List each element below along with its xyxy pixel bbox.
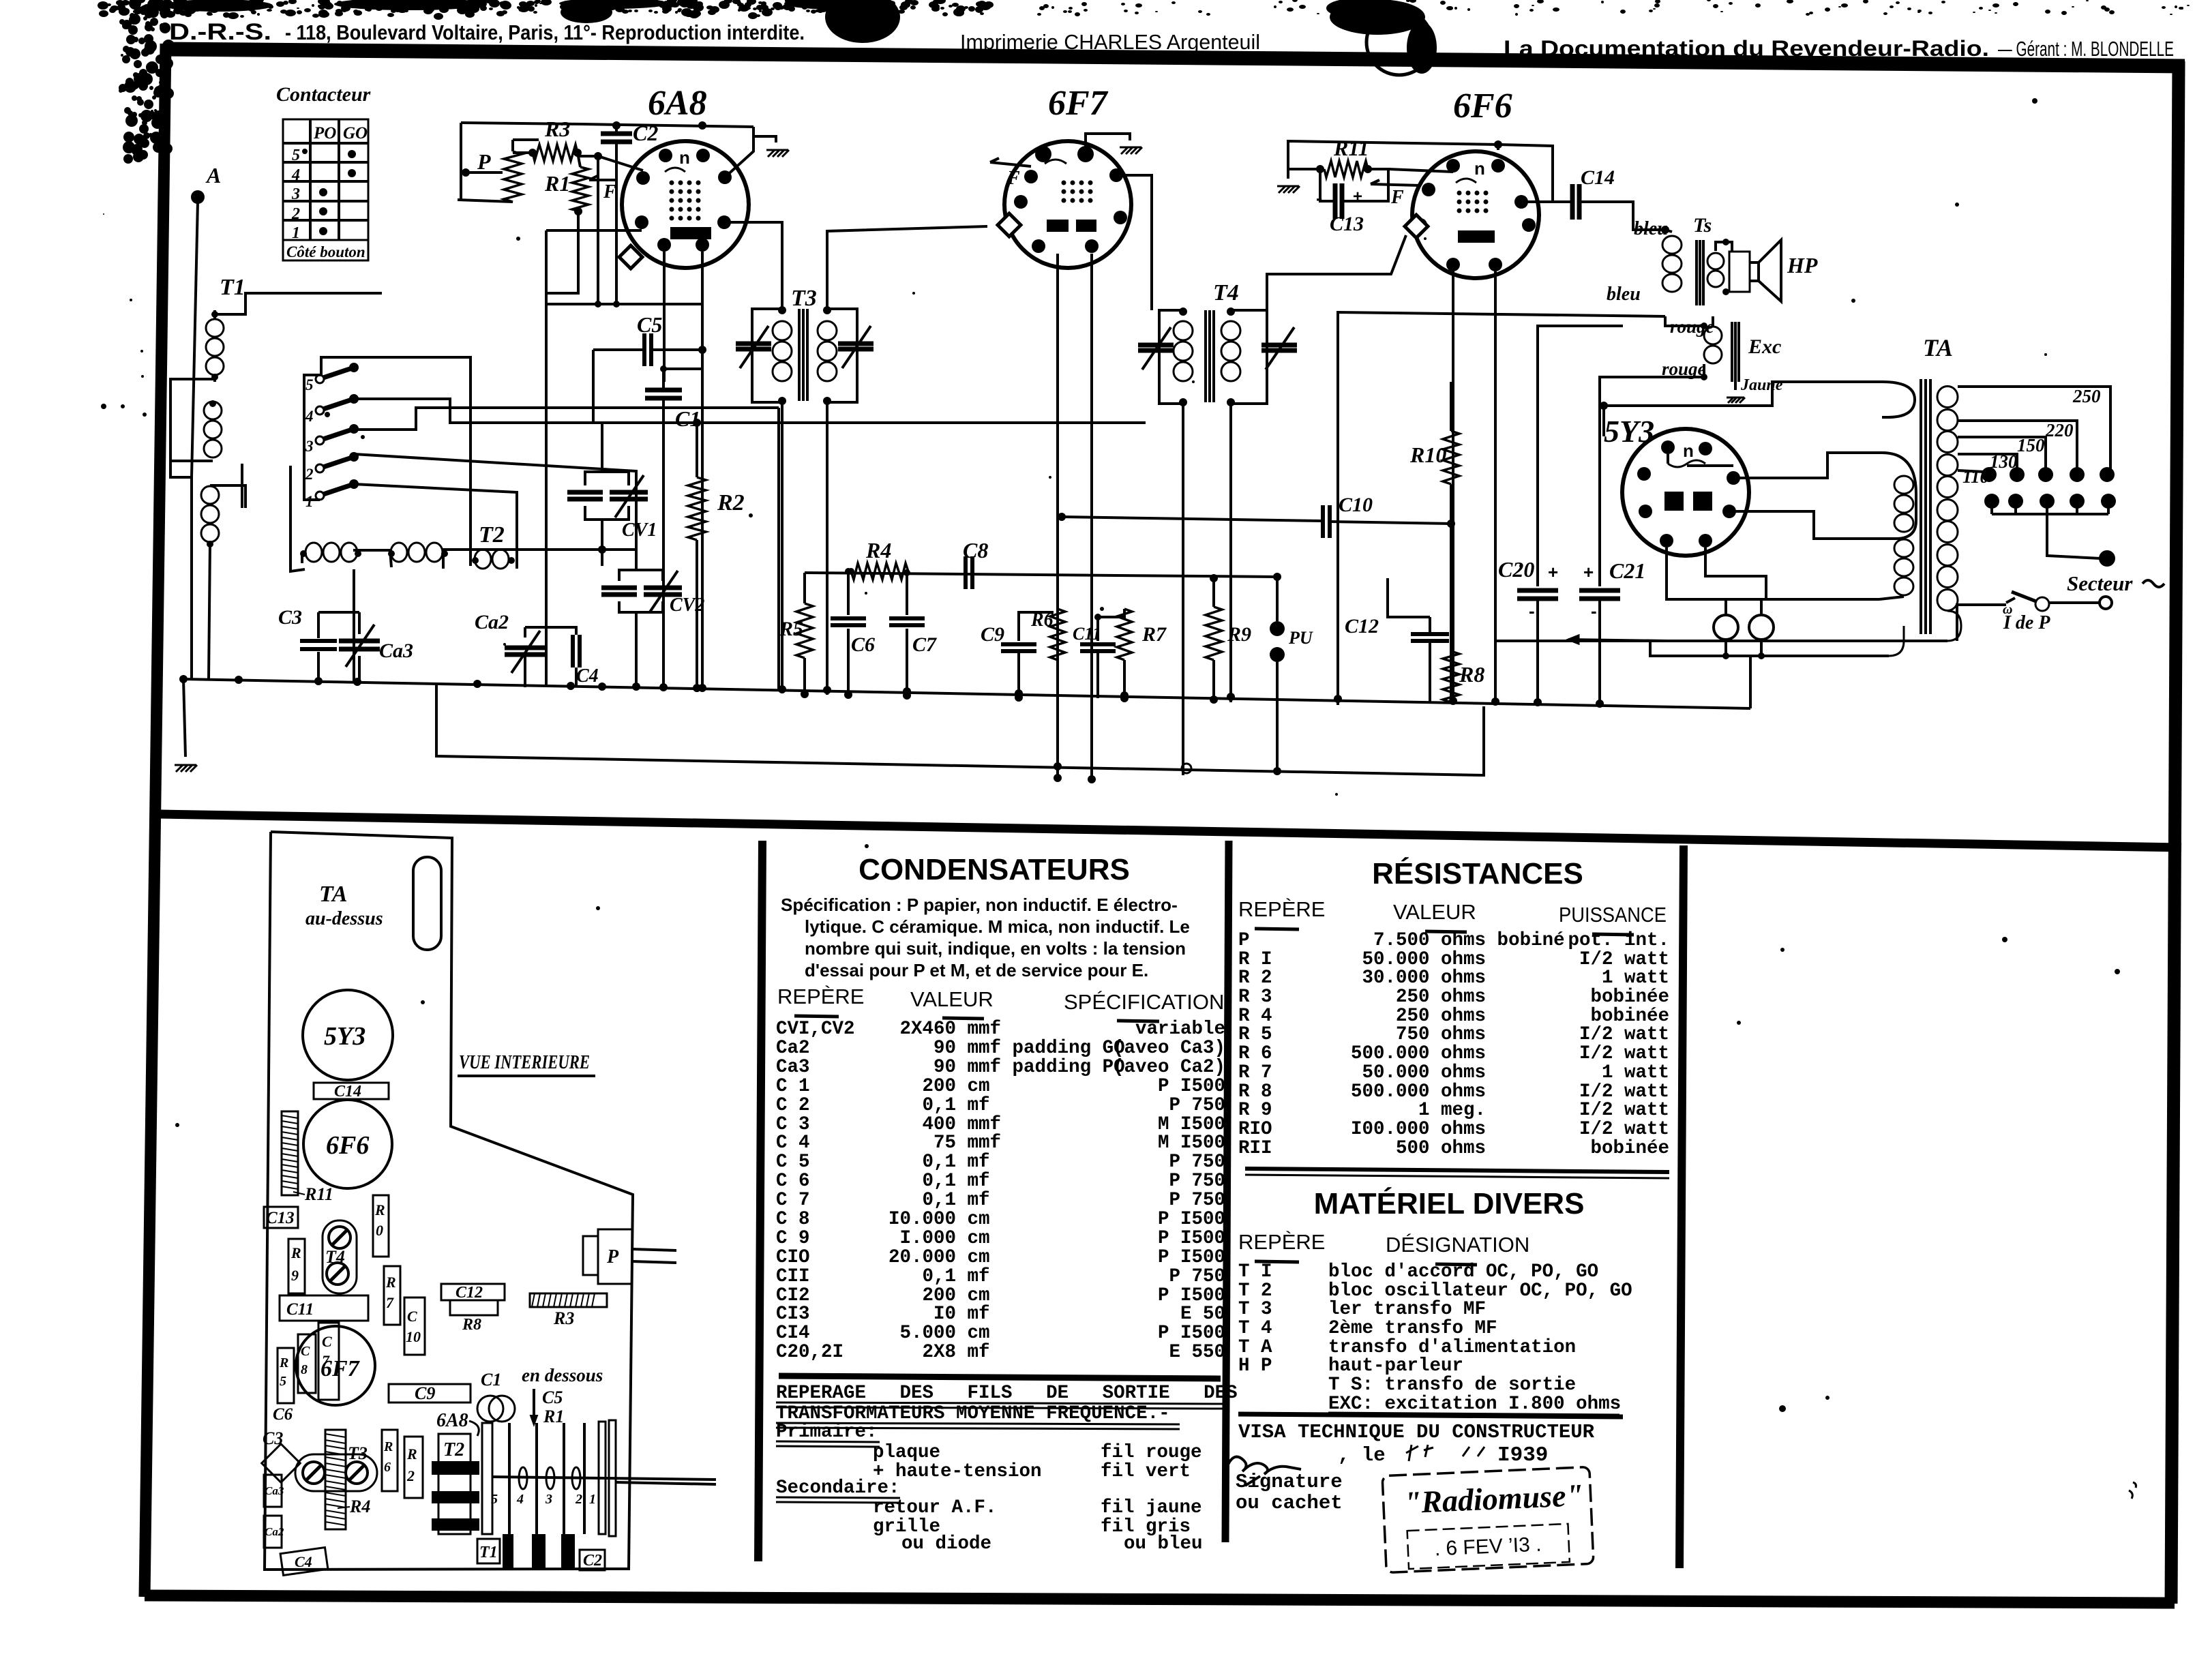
band switch contacts <box>316 375 324 383</box>
wire T4 bottoms down <box>1182 404 1184 775</box>
svg-text:P I500: P I500 <box>1158 1323 1225 1344</box>
svg-text:plaque: plaque <box>873 1442 940 1463</box>
svg-text:PUISSANCE: PUISSANCE <box>1559 903 1667 927</box>
svg-text:R1: R1 <box>543 1407 564 1426</box>
wire main ground bus <box>183 679 1750 708</box>
chassis R10 <box>373 1195 389 1257</box>
thick rule under materiel <box>1238 1414 1623 1417</box>
svg-text:2: 2 <box>291 205 300 223</box>
svg-text:Secondaire:: Secondaire: <box>776 1477 900 1499</box>
capacitor C4 <box>571 635 575 667</box>
svg-text:R10: R10 <box>1409 442 1446 467</box>
wire 6F7 pins down <box>1056 254 1059 778</box>
resistor R2 <box>688 477 706 540</box>
svg-text:Ca3 90 mmf padding P: Ca3 90 mmf padding PO <box>776 1057 1125 1078</box>
thick rule under condensateurs <box>779 1376 1221 1379</box>
svg-text:6: 6 <box>384 1460 391 1475</box>
svg-text:3: 3 <box>291 185 300 203</box>
svg-text:R 5 750 ohms: R 5 750 ohms <box>1238 1024 1486 1045</box>
svg-text:T 4 2ème transfo MF: T 4 2ème transfo MF <box>1238 1318 1497 1339</box>
capacitor Ca3 variable <box>339 639 380 644</box>
wire 6A8 cathode down <box>701 304 704 369</box>
svg-text:C6: C6 <box>851 633 875 656</box>
chassis Ca3 <box>264 1475 282 1507</box>
svg-text:C3: C3 <box>278 606 302 629</box>
svg-text:150: 150 <box>2017 435 2045 455</box>
svg-text:bobinée: bobinée <box>1590 1138 1669 1159</box>
svg-text:R7: R7 <box>1141 623 1167 646</box>
wire 5Y3 bottom heaters <box>1667 547 1879 599</box>
wire R1 bottom <box>546 211 578 304</box>
chassis C8 <box>298 1334 316 1393</box>
svg-text:R 6 500.000 ohms: R 6 500.000 ohms <box>1238 1043 1486 1064</box>
svg-text:4: 4 <box>516 1492 524 1507</box>
trimmer T3 left <box>736 342 771 346</box>
chassis C13 <box>264 1207 298 1228</box>
svg-text:lytique. C céramique. M mica,: lytique. C céramique. M mica, non induct… <box>805 916 1190 937</box>
svg-text:CI3 I0 mf: CI3 I0 mf <box>776 1304 990 1325</box>
chassis T3 oval <box>295 1454 377 1491</box>
svg-text:Secteur: Secteur <box>2067 571 2133 595</box>
svg-text:C 9 I.000 cm: C 9 I.000 cm <box>776 1228 990 1249</box>
svg-text:P I500: P I500 <box>1158 1076 1225 1097</box>
svg-text:2: 2 <box>575 1492 582 1507</box>
svg-text:C2: C2 <box>583 1552 602 1570</box>
svg-text:T I bloc d'accord OC, PO,: T I bloc d'accord OC, PO, GO <box>1238 1261 1598 1282</box>
chassis R11 <box>282 1111 298 1195</box>
svg-text:(aveo Ca2): (aveo Ca2) <box>1113 1057 1225 1078</box>
svg-text:TA: TA <box>319 882 348 907</box>
stray specks <box>302 149 308 154</box>
svg-text:bobinée: bobinée <box>1590 987 1669 1008</box>
svg-text:P 750: P 750 <box>1169 1152 1225 1173</box>
svg-text:R2: R2 <box>717 490 745 515</box>
svg-text:C 6 0,1 mf: C 6 0,1 mf <box>776 1171 990 1192</box>
svg-text:C4: C4 <box>295 1553 312 1570</box>
svg-text:fil rouge: fil rouge <box>1101 1442 1202 1463</box>
svg-text:Spécification : P papier, non: Spécification : P papier, non inductif. … <box>781 895 1178 915</box>
stray specks extra <box>516 237 520 241</box>
svg-text:DÉSIGNATION: DÉSIGNATION <box>1386 1233 1529 1257</box>
chassis R8 <box>450 1300 498 1315</box>
svg-text:R: R <box>374 1201 385 1218</box>
svg-text:1 watt: 1 watt <box>1602 1062 1669 1083</box>
wire 6F7 plate right <box>1120 175 1152 310</box>
svg-text:VALEUR: VALEUR <box>910 987 994 1011</box>
constructor stamp box <box>1382 1467 1594 1572</box>
tube 6F6 spigot <box>1405 215 1428 238</box>
svg-text:H P haut-parleur: H P haut-parleur <box>1238 1355 1463 1377</box>
svg-text:P: P <box>477 149 491 174</box>
separator bar between tables <box>1225 841 1229 1542</box>
svg-text:P I500: P I500 <box>1158 1228 1225 1249</box>
ground top 6A8 <box>768 150 775 157</box>
svg-text:C1: C1 <box>675 406 700 431</box>
svg-text:I/2 watt: I/2 watt <box>1579 1100 1669 1121</box>
wire bus y446 <box>546 303 702 305</box>
variable capacitor CV1 <box>585 472 629 485</box>
svg-text:C5: C5 <box>542 1387 563 1407</box>
chassis R3 <box>530 1293 607 1307</box>
svg-text:8: 8 <box>301 1362 308 1377</box>
svg-text:n: n <box>679 147 690 168</box>
arrow heater left <box>1568 640 1667 641</box>
chassis T1 <box>477 1539 500 1563</box>
svg-text:T4: T4 <box>1213 280 1239 305</box>
svg-text:— Gérant : M. BLONDELLE: — Gérant : M. BLONDELLE <box>1998 37 2174 61</box>
svg-text:CV2: CV2 <box>670 595 704 616</box>
svg-text:CIO 20.000 cm: CIO 20.000 cm <box>776 1247 990 1268</box>
wire switch out arm1 <box>354 484 517 569</box>
wire CV2 <box>635 550 638 570</box>
svg-text:R11: R11 <box>1333 136 1369 160</box>
wire top rail 6A8 <box>582 124 753 127</box>
svg-text:I939: I939 <box>1497 1443 1548 1467</box>
svg-text:6F7: 6F7 <box>1048 84 1109 123</box>
chassis R2 <box>404 1437 423 1498</box>
svg-text:REPÈRE: REPÈRE <box>1238 1230 1325 1254</box>
svg-text:, le: , le <box>1338 1444 1386 1467</box>
svg-text:n: n <box>1474 158 1485 179</box>
chassis C4 <box>280 1548 328 1576</box>
wire Ts to Exc <box>1665 316 1704 326</box>
svg-text:0: 0 <box>376 1222 383 1239</box>
svg-text:5: 5 <box>491 1492 498 1507</box>
svg-text:retour A.F.: retour A.F. <box>873 1497 997 1518</box>
svg-text:nombre qui suit, indique, en v: nombre qui suit, indique, en volts : la … <box>805 938 1186 959</box>
ground 6F7 top <box>1086 134 1130 149</box>
svg-text:C 7 0,1 mf: C 7 0,1 mf <box>776 1190 990 1211</box>
wire PU <box>1270 621 1285 636</box>
divider line between schematic and tables <box>159 814 2181 847</box>
svg-text:C4: C4 <box>576 665 599 687</box>
chassis T4 <box>323 1220 357 1293</box>
svg-text:R1: R1 <box>544 171 570 196</box>
svg-text:PU: PU <box>1288 628 1313 648</box>
svg-text:GO: GO <box>343 124 368 142</box>
ground bottom left <box>183 679 185 757</box>
wire R11 C13 box <box>1300 168 1320 170</box>
svg-text:R3: R3 <box>544 117 570 141</box>
svg-text:E 50: E 50 <box>1180 1304 1225 1325</box>
wire rouge1 to C20 <box>1712 316 1714 326</box>
svg-text:2: 2 <box>406 1467 415 1484</box>
svg-text:Ca3: Ca3 <box>379 640 413 662</box>
frame bottom bar <box>145 1595 2175 1603</box>
wire 5Y3 to TA primary <box>1733 453 1882 478</box>
chassis T2 <box>438 1434 471 1534</box>
svg-text:variable: variable <box>1135 1019 1225 1040</box>
TA core <box>1920 379 1922 634</box>
svg-text:3: 3 <box>305 438 314 455</box>
wire switch to plug <box>2049 601 2099 604</box>
svg-text:4: 4 <box>291 166 300 184</box>
svg-text:TA: TA <box>1923 334 1953 361</box>
chassis R9 <box>288 1239 305 1293</box>
svg-text:SPÉCIFICATION: SPÉCIFICATION <box>1064 990 1224 1014</box>
trimmer T4 left <box>1138 343 1174 348</box>
svg-text:VUE INTERIEURE: VUE INTERIEURE <box>459 1051 590 1073</box>
svg-text:R: R <box>383 1439 393 1454</box>
svg-text:F: F <box>1390 187 1404 208</box>
wire 6A8 bottom pins <box>663 252 666 382</box>
svg-text:C10: C10 <box>1339 494 1373 516</box>
svg-text:C: C <box>407 1308 417 1325</box>
svg-text:5: 5 <box>305 376 314 393</box>
frame left bar <box>145 44 166 1597</box>
svg-text:T4: T4 <box>325 1247 345 1267</box>
svg-text:C1: C1 <box>481 1370 501 1390</box>
svg-text:T1: T1 <box>479 1544 498 1561</box>
svg-text:RÉSISTANCES: RÉSISTANCES <box>1372 856 1583 890</box>
svg-text:P 750: P 750 <box>1169 1095 1225 1116</box>
contacteur table <box>283 119 368 240</box>
svg-text:Exc: Exc <box>1748 335 1781 358</box>
svg-text:1: 1 <box>305 493 314 510</box>
svg-text:R: R <box>406 1445 417 1462</box>
wire 6F7 to C10 node <box>1060 515 1063 518</box>
svg-text:fil jaune: fil jaune <box>1101 1497 1202 1518</box>
frame top bar <box>168 49 2185 66</box>
svg-text:5: 5 <box>292 147 300 164</box>
chassis tube 6F6 <box>303 1100 392 1188</box>
svg-text:C21: C21 <box>1609 558 1645 583</box>
stray mark right margin <box>2129 1482 2136 1499</box>
chassis C2 <box>580 1550 605 1570</box>
svg-text:C20: C20 <box>1498 557 1534 582</box>
svg-text:T3: T3 <box>791 286 817 311</box>
chassis R6 <box>382 1430 398 1491</box>
svg-text:C14: C14 <box>334 1083 361 1100</box>
svg-text:R3: R3 <box>553 1308 574 1328</box>
svg-text:PO: PO <box>313 124 336 142</box>
chassis tube 5Y3 <box>303 990 393 1080</box>
svg-text:I/2 watt: I/2 watt <box>1579 1043 1669 1064</box>
wire switch out arm4 <box>354 399 1146 423</box>
svg-text:CV1: CV1 <box>622 520 657 541</box>
svg-text:2: 2 <box>305 466 314 483</box>
svg-text:C20,2I 2X8 mf: C20,2I 2X8 mf <box>776 1342 990 1363</box>
chassis tuning gang <box>482 1423 492 1534</box>
svg-text:ou cachet: ou cachet <box>1236 1492 1343 1514</box>
svg-text:R 2 30.000 ohms: R 2 30.000 ohms <box>1238 967 1486 989</box>
svg-text:+: + <box>1583 562 1594 582</box>
svg-text:F: F <box>1006 168 1020 189</box>
svg-text:220: 220 <box>2045 420 2074 440</box>
svg-text:R8: R8 <box>462 1316 481 1334</box>
wire CV1 <box>601 423 603 472</box>
scan noise top band <box>98 0 2190 417</box>
svg-text:C9: C9 <box>415 1383 435 1403</box>
svg-text:Ca2: Ca2 <box>265 1525 284 1538</box>
svg-text:R9: R9 <box>1227 623 1251 646</box>
svg-text:C13: C13 <box>266 1209 295 1227</box>
svg-text:I/2 watt: I/2 watt <box>1579 1119 1669 1140</box>
chassis R7 <box>384 1266 400 1325</box>
thick rule under resistances <box>1245 1169 1669 1172</box>
svg-text:C12: C12 <box>1345 615 1379 637</box>
wire 5Y3 top rail <box>1604 382 1882 406</box>
wire T3 down <box>781 402 783 693</box>
selector terminals row2 <box>1984 494 1999 509</box>
wire R11 to 6F6 grid2 <box>1388 169 1453 172</box>
svg-text:RIO I00.000 ohms: RIO I00.000 ohms <box>1238 1119 1486 1140</box>
svg-text:VISA TECHNIQUE DU CONSTRUCTEUR: VISA TECHNIQUE DU CONSTRUCTEUR <box>1238 1421 1595 1443</box>
speaker HP <box>1729 252 1750 292</box>
svg-text:1 watt: 1 watt <box>1602 967 1669 989</box>
TA secondary taps <box>1947 385 1949 387</box>
svg-text:F: F <box>603 181 616 202</box>
svg-text:C 1 200 cm: C 1 200 cm <box>776 1076 990 1097</box>
wire 6F6 top rail <box>1288 141 1498 169</box>
chassis mounting bars <box>503 1534 513 1570</box>
capacitor C1 <box>645 388 682 393</box>
svg-text:C5: C5 <box>637 312 662 337</box>
chassis C14 <box>314 1083 389 1099</box>
svg-text:5Y3: 5Y3 <box>324 1022 365 1051</box>
frame right bar <box>2171 61 2179 1604</box>
svg-text:ou diode: ou diode <box>901 1533 991 1555</box>
svg-text:A: A <box>205 163 221 187</box>
chassis C12 <box>441 1284 505 1300</box>
svg-text:CII 0,1 mf: CII 0,1 mf <box>776 1266 990 1287</box>
wire switch frame <box>304 375 320 500</box>
svg-text:C14: C14 <box>1581 166 1615 189</box>
wire C5 <box>593 348 644 351</box>
field coil Exc <box>1704 327 1722 344</box>
svg-text:-: - <box>1591 601 1597 621</box>
wire 6F6 screen <box>1521 200 1553 203</box>
wire T2 links <box>290 466 305 571</box>
selector common out <box>2047 514 2100 558</box>
TA heater windings <box>1894 476 1913 494</box>
chassis Ca2 <box>264 1516 282 1548</box>
svg-text:R11: R11 <box>304 1184 333 1204</box>
svg-text:P: P <box>606 1246 619 1267</box>
chassis outline vue interieure <box>265 832 633 1570</box>
svg-text:T3: T3 <box>348 1443 368 1463</box>
svg-text:ou bleu: ou bleu <box>1124 1533 1203 1555</box>
svg-text:T1: T1 <box>220 275 245 300</box>
svg-text:I de P: I de P <box>2003 612 2050 633</box>
svg-text:C 5 0,1 mf: C 5 0,1 mf <box>776 1152 990 1173</box>
svg-text:CVI,CV2 2X460 mmf: CVI,CV2 2X460 mmf <box>776 1019 1001 1040</box>
wire R2 <box>696 423 698 477</box>
svg-text:- 118, Boulevard Voltaire, Par: - 118, Boulevard Voltaire, Paris, 11°- R… <box>285 20 805 44</box>
wire Exc bottom <box>1600 364 1704 586</box>
svg-text:Jaune: Jaune <box>1740 376 1783 394</box>
wire P wiper <box>461 171 503 174</box>
svg-text:T2: T2 <box>443 1439 464 1460</box>
svg-text:Signature: Signature <box>1236 1471 1343 1493</box>
svg-text:C11: C11 <box>286 1300 314 1319</box>
svg-text:n: n <box>1683 440 1694 461</box>
svg-text:3: 3 <box>545 1492 552 1507</box>
svg-text:Côté bouton: Côté bouton <box>286 243 365 260</box>
svg-text:C7: C7 <box>912 633 937 656</box>
wire switch out arm3 <box>354 408 779 430</box>
svg-text:+: + <box>1353 187 1362 206</box>
svg-text:P I500: P I500 <box>1158 1247 1225 1268</box>
chassis C9 <box>389 1384 471 1402</box>
wire antenna down <box>192 202 198 477</box>
svg-text:R4: R4 <box>865 538 891 562</box>
chassis C11 <box>280 1295 368 1321</box>
wire switch to TA bottom <box>1957 605 2006 641</box>
svg-text:250: 250 <box>2072 386 2101 406</box>
svg-text:1: 1 <box>292 224 300 242</box>
wire T1 top to switch <box>215 293 382 314</box>
svg-text:T2: T2 <box>479 522 505 547</box>
chassis C10 <box>404 1297 425 1355</box>
chassis potentiometer P <box>598 1229 632 1284</box>
svg-text:Ca2 90 mmf padding G: Ca2 90 mmf padding GO <box>776 1038 1125 1059</box>
svg-text:(aveo Ca3): (aveo Ca3) <box>1113 1038 1225 1059</box>
svg-text:Ca2: Ca2 <box>475 611 509 633</box>
svg-text:R4: R4 <box>349 1497 370 1516</box>
svg-text:R 3 250 ohms: R 3 250 ohms <box>1238 987 1486 1008</box>
svg-text:VALEUR: VALEUR <box>1393 900 1476 924</box>
svg-text:R 9 1 meg.: R 9 1 meg. <box>1238 1100 1486 1121</box>
chassis R5 <box>278 1348 294 1403</box>
svg-text:C 2 0,1 mf: C 2 0,1 mf <box>776 1095 990 1116</box>
wire Ts secondary return <box>1338 312 1665 705</box>
selector terminals row1 <box>1982 467 1997 482</box>
svg-text:5: 5 <box>280 1374 286 1389</box>
ground R11 <box>1288 168 1320 170</box>
chassis tube 6F7 <box>296 1326 375 1405</box>
svg-text:pot. int.: pot. int. <box>1568 930 1669 951</box>
svg-text:bleu: bleu <box>1607 284 1641 305</box>
svg-text:-: - <box>1529 601 1535 621</box>
wire T3 to 6F7 grid <box>827 226 987 309</box>
wire to ground top <box>753 127 776 142</box>
svg-text:C12: C12 <box>456 1284 483 1302</box>
svg-text:P 750: P 750 <box>1169 1171 1225 1192</box>
separator bar left of condensateurs <box>758 841 762 1561</box>
wire switch out arm2 <box>354 454 636 550</box>
svg-text:9: 9 <box>291 1267 299 1284</box>
svg-text:+: + <box>1548 562 1558 582</box>
variable capacitor CV2 <box>619 570 663 581</box>
speaker coupling coil <box>1707 253 1724 269</box>
svg-text:Ts: Ts <box>1693 214 1712 237</box>
svg-text:4: 4 <box>305 408 314 425</box>
wire 6A8 plate <box>725 127 753 177</box>
wire 6F6 plate to C14 to Ts <box>1529 200 1572 203</box>
svg-text:T S: transfo de sortie: T S: transfo de sortie <box>1238 1375 1576 1396</box>
trimmer T4 right <box>1261 343 1297 348</box>
svg-text:6A8: 6A8 <box>648 84 707 123</box>
svg-text:6F6: 6F6 <box>1453 87 1512 125</box>
svg-text:P 750: P 750 <box>1169 1190 1225 1211</box>
svg-text:RII 500 ohms: RII 500 ohms <box>1238 1138 1486 1159</box>
svg-text:P I500: P I500 <box>1158 1209 1225 1230</box>
svg-text:C 4 75 mmf: C 4 75 mmf <box>776 1132 1001 1154</box>
wire C10 <box>1062 517 1323 521</box>
svg-text:REPÈRE: REPÈRE <box>1238 897 1325 921</box>
chassis oval hole <box>413 857 441 950</box>
svg-text:EXC: excitation I.800 ohms: EXC: excitation I.800 ohms <box>1238 1394 1621 1415</box>
svg-text:I/2 watt: I/2 watt <box>1579 1024 1669 1045</box>
svg-text:7: 7 <box>386 1294 394 1311</box>
separator bar right of resistances <box>1679 845 1684 1568</box>
wire 5Y3 plates <box>1667 454 1669 464</box>
svg-text:6A8: 6A8 <box>436 1410 468 1431</box>
svg-text:HP: HP <box>1787 253 1818 277</box>
svg-text:7: 7 <box>322 1352 330 1369</box>
svg-text:R: R <box>290 1244 301 1261</box>
